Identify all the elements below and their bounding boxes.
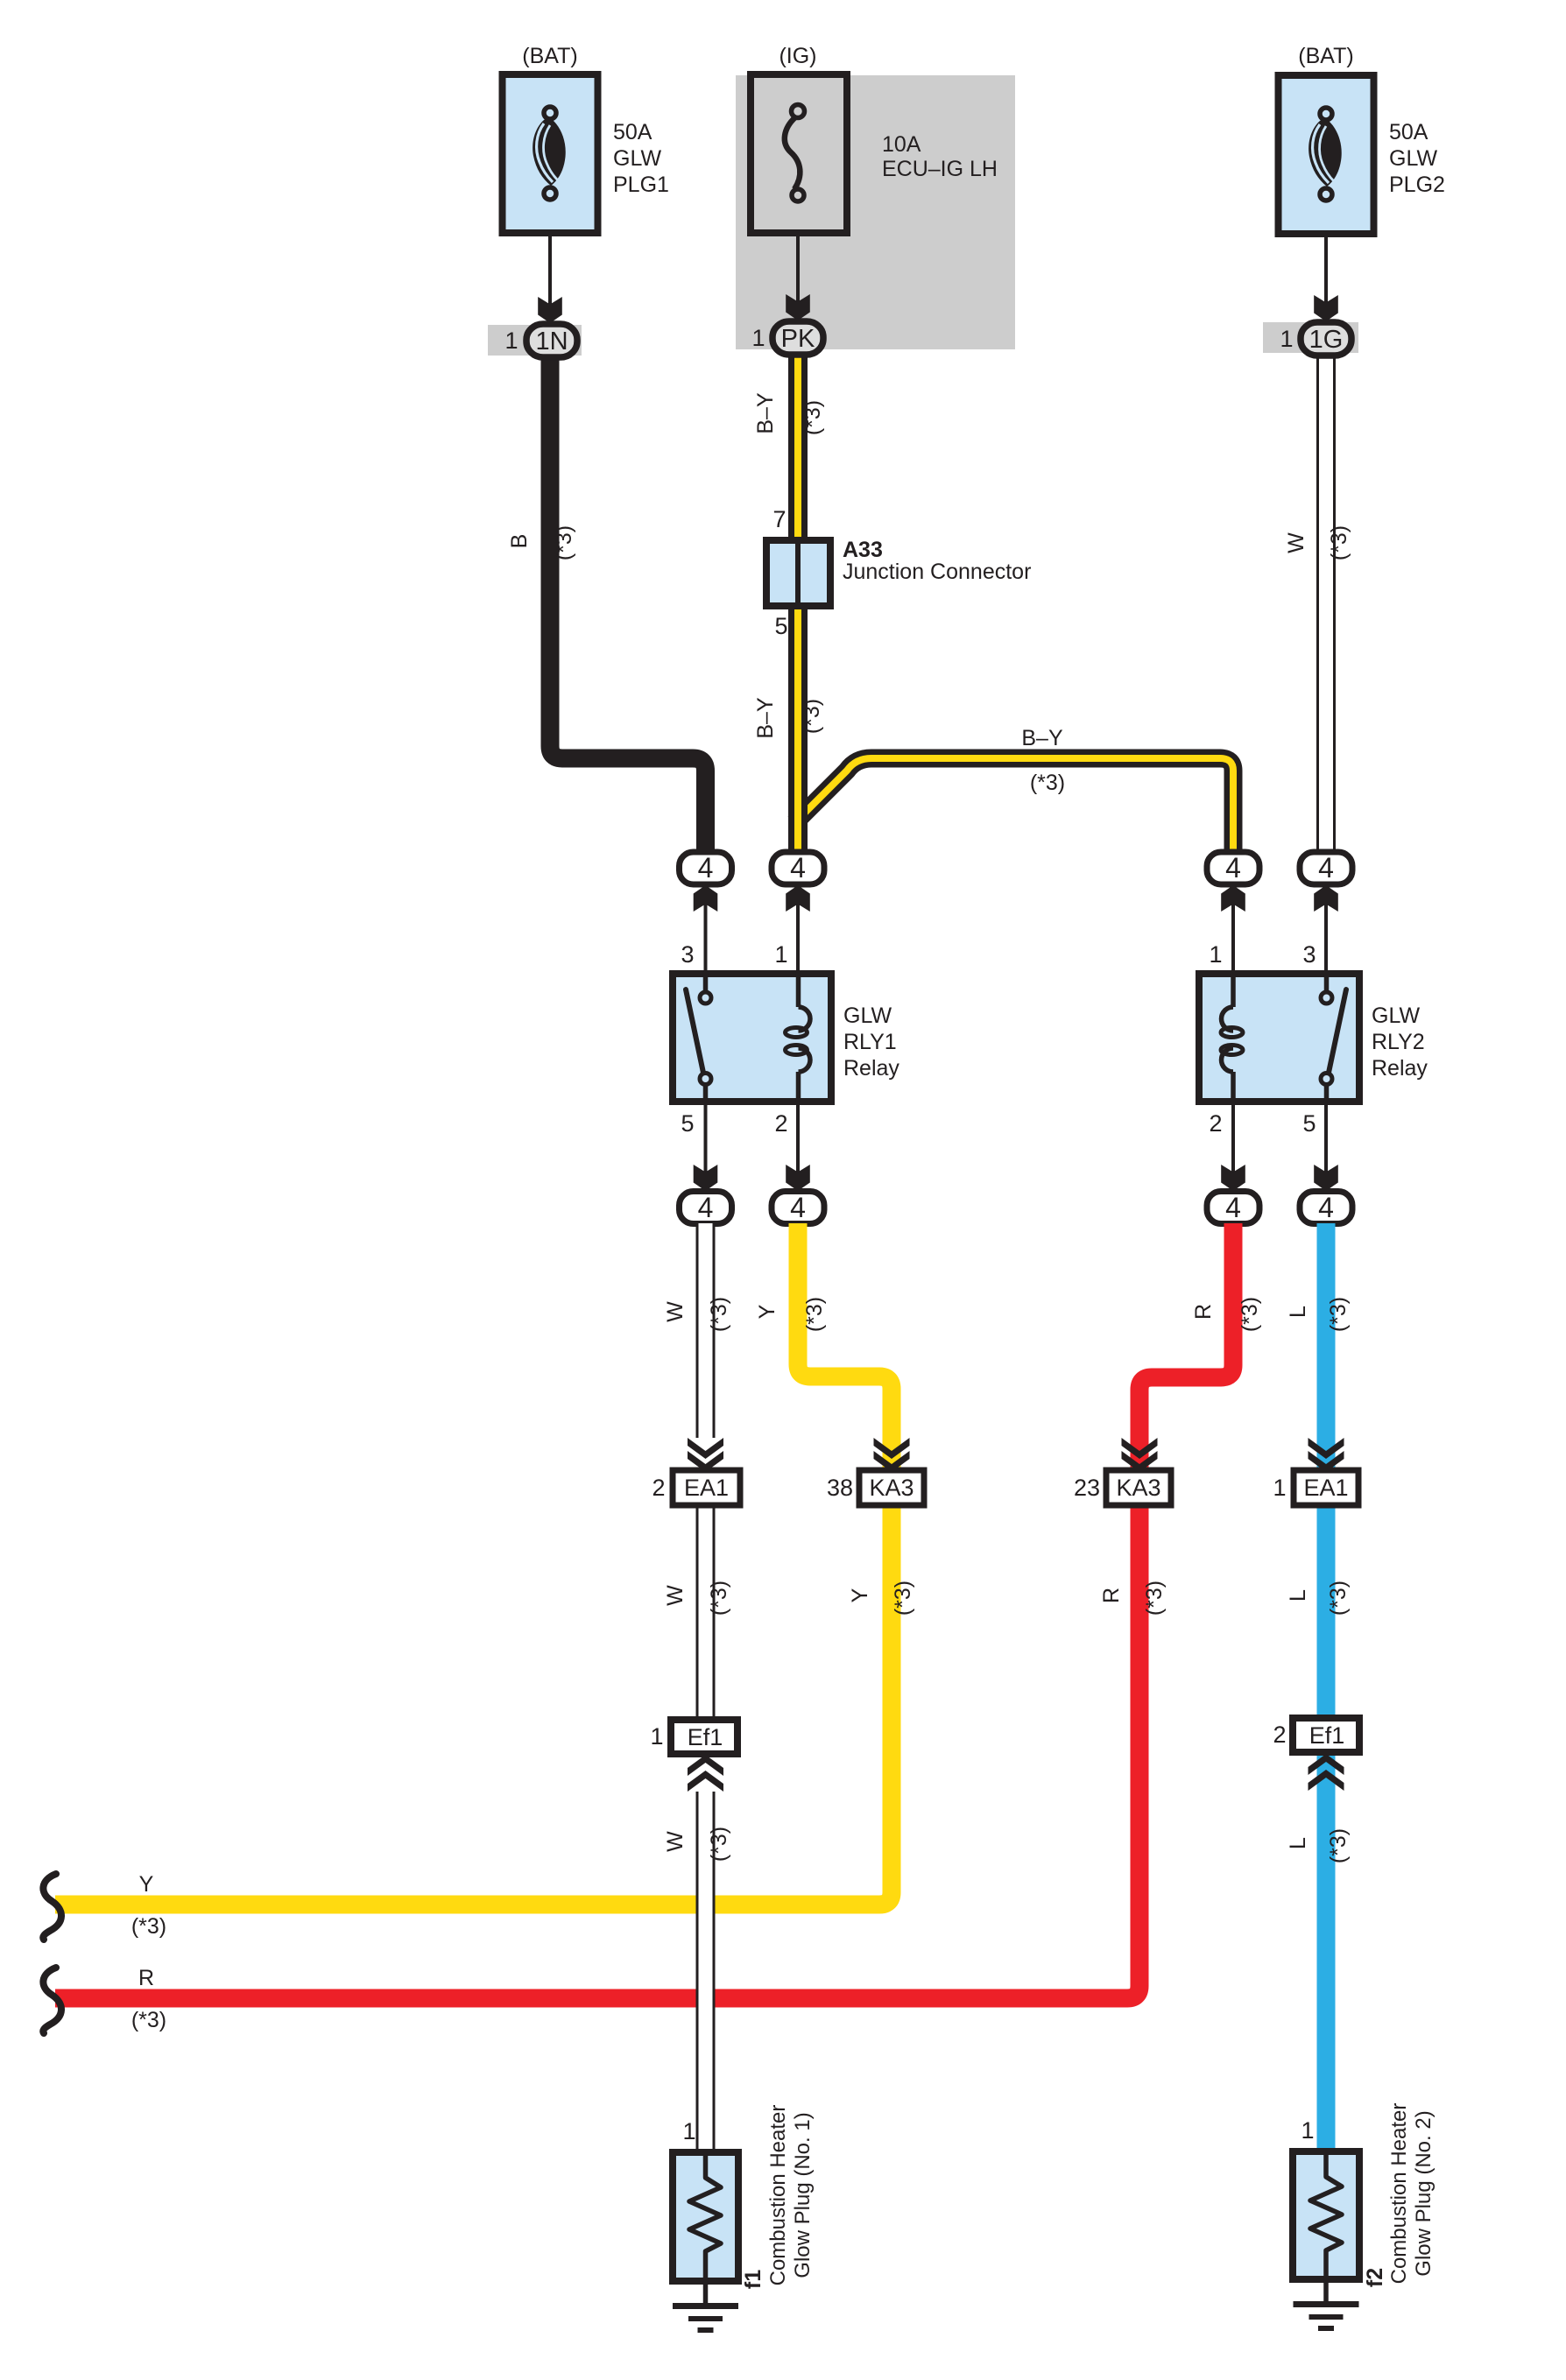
svg-text:Combustion Heater: Combustion Heater: [766, 2105, 790, 2286]
svg-text:GLW: GLW: [843, 1003, 892, 1028]
fuse 10A ECU-IG LH: [751, 74, 847, 233]
svg-text:EA1: EA1: [1303, 1475, 1348, 1501]
svg-text:1: 1: [504, 327, 518, 354]
break symbol on Y wire: [43, 1874, 61, 1940]
wire stem fuse PLG1 to 1N: [548, 233, 552, 305]
svg-text:KA3: KA3: [869, 1475, 913, 1501]
svg-text:R: R: [1099, 1588, 1124, 1603]
svg-text:2: 2: [774, 1110, 787, 1137]
svg-text:W: W: [663, 1585, 688, 1606]
wire W (thin twin) from relay1 pin5 node to glow plug 1: [696, 1223, 716, 2152]
svg-text:4: 4: [1225, 1192, 1241, 1223]
gray band behind connector 1N: [488, 325, 582, 356]
svg-text:B–Y: B–Y: [1021, 726, 1063, 750]
svg-text:4: 4: [790, 852, 806, 884]
svg-text:Combustion Heater: Combustion Heater: [1387, 2103, 1411, 2285]
svg-text:1N: 1N: [535, 327, 568, 356]
connector EA1 (pin 1): [1294, 1470, 1358, 1505]
wire relay1 pin2 down: [796, 1102, 800, 1181]
svg-text:Relay: Relay: [843, 1056, 899, 1081]
svg-text:(*3): (*3): [131, 2008, 166, 2032]
relay GLW RLY1: [673, 974, 831, 1102]
svg-text:(*3): (*3): [1326, 1828, 1351, 1863]
svg-text:4: 4: [698, 852, 714, 884]
svg-text:Glow Plug (No. 1): Glow Plug (No. 1): [791, 2112, 815, 2278]
svg-text:Ef1: Ef1: [1309, 1722, 1345, 1749]
svg-text:1: 1: [774, 941, 787, 968]
svg-text:Y: Y: [139, 1872, 154, 1897]
svg-text:Y: Y: [755, 1304, 779, 1319]
svg-text:EA1: EA1: [684, 1475, 729, 1501]
node oval 4 above relay2 pin3: [1300, 852, 1352, 884]
connector KA3 (pin 38): [859, 1470, 924, 1505]
svg-text:4: 4: [1318, 1192, 1334, 1223]
svg-text:ECU–IG LH: ECU–IG LH: [882, 157, 998, 181]
svg-text:1: 1: [1301, 2117, 1314, 2144]
wire relay1 pin5 down: [704, 1102, 708, 1181]
svg-text:50A: 50A: [1389, 120, 1428, 144]
svg-text:1: 1: [1273, 1475, 1286, 1501]
ground below glow plug 2: [1294, 2279, 1359, 2331]
fuse 50A GLW PLG1: [503, 74, 598, 233]
svg-text:1: 1: [751, 325, 765, 351]
node oval 4 above relay2 pin1: [1207, 852, 1259, 884]
combustion heater glow plug No.1: [673, 2152, 738, 2281]
svg-text:L: L: [1286, 1837, 1310, 1849]
combustion heater glow plug No.2: [1293, 2151, 1359, 2279]
wire stem fuse PLG2 to 1G: [1324, 233, 1328, 305]
svg-text:1G: 1G: [1309, 326, 1344, 354]
svg-text:GLW: GLW: [613, 146, 661, 171]
ground below glow plug 1: [673, 2281, 738, 2333]
svg-text:38: 38: [827, 1475, 853, 1501]
wire relay1 pin1 up to oval: [796, 895, 800, 974]
svg-text:(*3): (*3): [1238, 1297, 1262, 1332]
svg-text:1: 1: [1209, 941, 1222, 968]
junction connector A33: [766, 540, 830, 606]
svg-text:(BAT): (BAT): [1298, 44, 1353, 68]
svg-text:1: 1: [1280, 326, 1293, 352]
svg-text:RLY2: RLY2: [1372, 1030, 1425, 1054]
double chevron into EA1 pin2: [688, 1438, 723, 1459]
node oval 4 below relay1 pin2: [772, 1192, 824, 1224]
svg-text:W: W: [663, 1301, 688, 1322]
wire relay2 pin5 down: [1324, 1102, 1328, 1181]
connector oval 1G: [1301, 322, 1351, 356]
svg-text:3: 3: [681, 941, 694, 968]
svg-text:Ef1: Ef1: [688, 1724, 723, 1750]
svg-text:23: 23: [1074, 1475, 1100, 1501]
svg-text:2: 2: [1273, 1722, 1286, 1748]
connector Ef1 (pin 2): [1293, 1718, 1359, 1752]
node oval 4 above relay1 pin3: [680, 852, 732, 884]
svg-text:5: 5: [1302, 1110, 1316, 1137]
node oval 4 below relay2 pin5: [1300, 1192, 1352, 1224]
svg-text:GLW: GLW: [1389, 146, 1437, 171]
connector Ef1 (pin 1): [671, 1720, 737, 1754]
svg-text:(*3): (*3): [1030, 771, 1065, 795]
svg-text:(*3): (*3): [1326, 1297, 1351, 1332]
svg-text:1: 1: [682, 2118, 695, 2144]
svg-text:W: W: [663, 1831, 688, 1852]
svg-text:5: 5: [774, 613, 787, 639]
svg-text:A33: A33: [843, 538, 883, 562]
break symbol on R wire: [43, 1968, 61, 2033]
svg-text:(*3): (*3): [131, 1914, 166, 1939]
svg-text:(*3): (*3): [1142, 1581, 1167, 1616]
relay GLW RLY2: [1199, 974, 1359, 1102]
wire B (black) from 1N to relay1 pin3 node: [550, 355, 706, 852]
svg-text:f1: f1: [741, 2270, 765, 2289]
wire B-Y from A33 down to relay1 pin1 node: [788, 606, 808, 852]
wire B-Y from PK to junction connector A33: [788, 350, 808, 540]
svg-text:KA3: KA3: [1116, 1475, 1160, 1501]
svg-text:B–Y: B–Y: [753, 392, 778, 434]
svg-text:B–Y: B–Y: [753, 697, 778, 739]
svg-text:B: B: [507, 534, 532, 549]
svg-text:W: W: [1284, 532, 1309, 553]
svg-text:GLW: GLW: [1372, 1003, 1420, 1028]
svg-text:(*3): (*3): [801, 400, 825, 435]
node oval 4 below relay2 pin2: [1207, 1192, 1259, 1224]
svg-text:(*3): (*3): [1326, 1581, 1351, 1616]
wire relay1 pin3 up to oval: [704, 895, 708, 974]
svg-text:4: 4: [698, 1192, 714, 1223]
svg-text:4: 4: [1225, 852, 1241, 884]
double chevron into KA3 pin23: [1122, 1438, 1158, 1459]
svg-text:(*3): (*3): [802, 1297, 827, 1332]
svg-text:4: 4: [1318, 852, 1334, 884]
svg-text:f2: f2: [1363, 2268, 1387, 2287]
svg-text:1: 1: [650, 1723, 663, 1750]
svg-text:PLG1: PLG1: [613, 173, 669, 197]
svg-text:(*3): (*3): [1327, 525, 1351, 560]
svg-text:(*3): (*3): [707, 1581, 731, 1616]
node oval 4 below relay1 pin5: [680, 1192, 732, 1224]
wire relay2 pin3 up to oval: [1324, 895, 1328, 974]
svg-text:5: 5: [681, 1110, 694, 1137]
svg-text:(BAT): (BAT): [522, 44, 577, 68]
double chevron into EA1 pin1: [1309, 1438, 1344, 1459]
svg-text:L: L: [1286, 1589, 1310, 1602]
svg-text:L: L: [1286, 1306, 1310, 1318]
connector EA1 (pin 2): [673, 1470, 740, 1505]
chevron up below Ef1 pin1: [688, 1755, 723, 1776]
svg-text:50A: 50A: [613, 120, 652, 144]
svg-text:3: 3: [1302, 941, 1316, 968]
connector oval 1N: [526, 324, 577, 357]
svg-text:R: R: [1191, 1304, 1216, 1320]
wire W (thin twin) from 1G to relay2 pin3 node: [1316, 356, 1336, 852]
svg-text:Glow Plug (No. 2): Glow Plug (No. 2): [1412, 2110, 1435, 2276]
svg-text:7: 7: [772, 506, 786, 532]
svg-text:PK: PK: [781, 325, 815, 353]
svg-text:Relay: Relay: [1372, 1056, 1428, 1081]
chevron up below Ef1 pin2: [1309, 1754, 1344, 1775]
svg-text:2: 2: [652, 1475, 665, 1501]
wire R from relay2 pin2 node to KA3 pin23 and off-page left: [55, 1223, 1233, 1998]
double chevron into KA3 pin38: [874, 1438, 910, 1459]
svg-text:Junction Connector: Junction Connector: [843, 560, 1031, 584]
svg-text:Y: Y: [848, 1588, 872, 1602]
wire L from relay2 pin5 node to glow plug 2: [1317, 1223, 1336, 2151]
svg-text:PLG2: PLG2: [1389, 173, 1445, 197]
svg-text:10A: 10A: [882, 132, 921, 157]
svg-text:(*3): (*3): [891, 1581, 915, 1616]
wire stem fuse ECU-IG to PK: [796, 233, 800, 305]
svg-text:2: 2: [1209, 1110, 1222, 1137]
gray band behind connector 1G: [1263, 322, 1358, 353]
gray block around ECU-IG LH fuse: [736, 75, 1015, 349]
svg-text:4: 4: [790, 1192, 806, 1223]
wire relay2 pin2 down: [1231, 1102, 1235, 1181]
svg-text:R: R: [138, 1966, 154, 1990]
connector KA3 (pin 23): [1106, 1470, 1171, 1505]
svg-text:RLY1: RLY1: [843, 1030, 897, 1054]
node oval 4 above relay1 pin1: [772, 852, 824, 884]
connector oval PK: [772, 321, 823, 355]
wire B-Y branch to relay2 pin1 node: [794, 758, 1233, 852]
svg-text:(IG): (IG): [779, 44, 816, 68]
svg-text:(*3): (*3): [552, 525, 576, 560]
fuse 50A GLW PLG2: [1279, 75, 1374, 234]
wire relay2 pin1 up to oval: [1231, 895, 1235, 974]
wire Y from relay1 pin2 node to KA3 pin38 and off-page left: [55, 1223, 892, 1905]
svg-text:(*3): (*3): [707, 1297, 731, 1332]
svg-text:(*3): (*3): [707, 1827, 731, 1862]
svg-text:(*3): (*3): [800, 699, 824, 734]
